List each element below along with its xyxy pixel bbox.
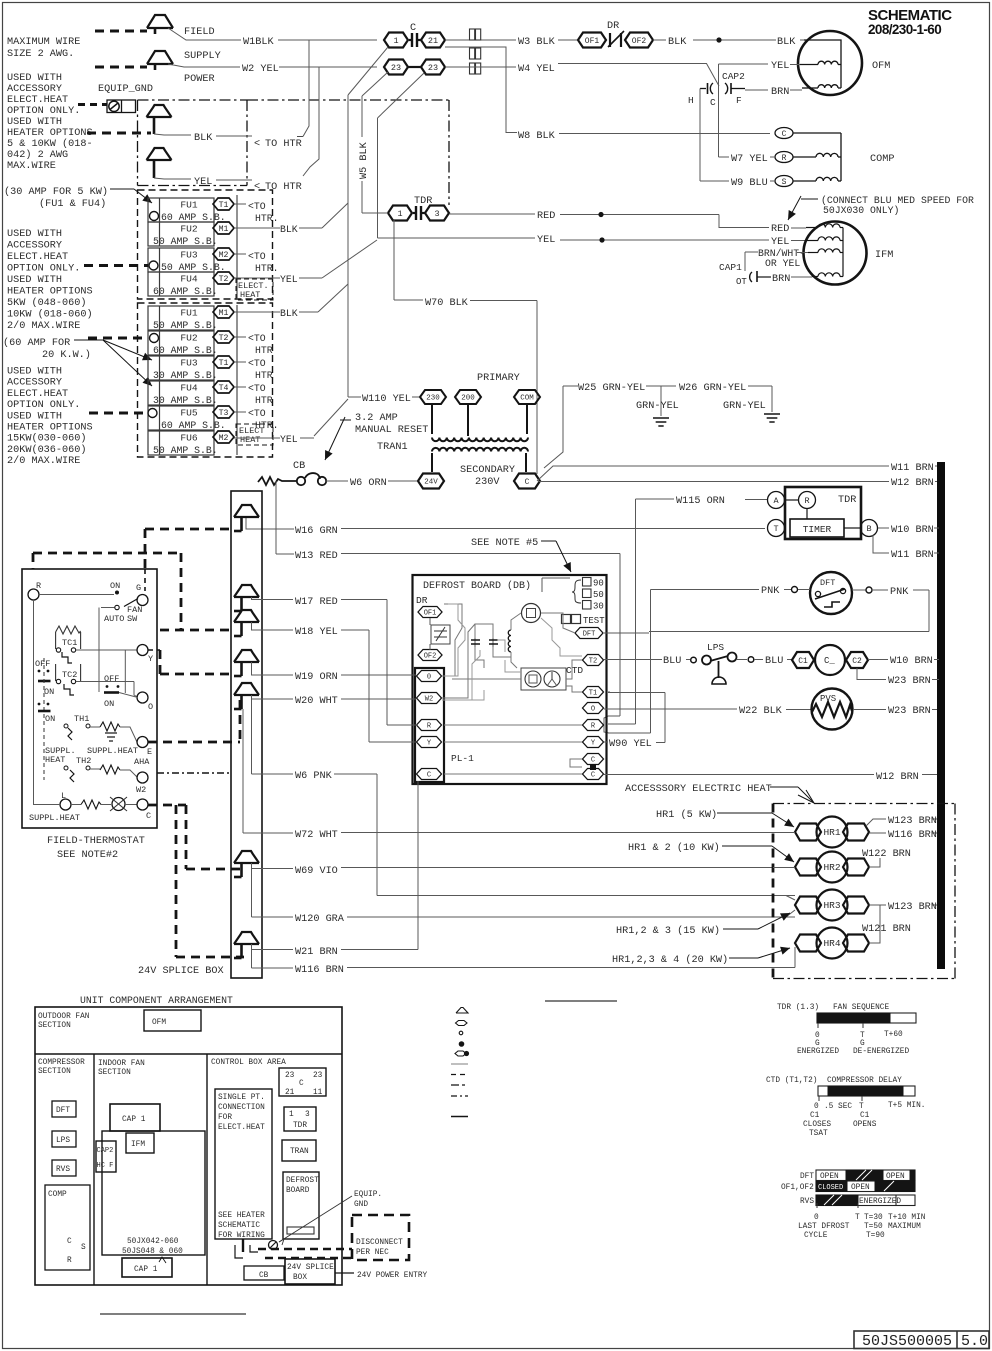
wire W19 ORN to defrost O hex bbox=[252, 662, 417, 675]
wire TC1 to Y bbox=[76, 649, 137, 651]
separator line near charts bbox=[545, 1000, 617, 1002]
label SEE NOTE#2 bbox=[57, 850, 118, 861]
svg-text:T: T bbox=[859, 1103, 864, 1111]
trunk W5 BLK vertical bbox=[362, 72, 388, 213]
fuse FU2 (T2) block2 bbox=[148, 331, 234, 355]
label W8 BLK bbox=[518, 131, 556, 142]
defrost relay capacitor element bbox=[430, 618, 450, 650]
svg-text:C_: C_ bbox=[824, 656, 835, 666]
svg-text:W2: W2 bbox=[136, 785, 146, 795]
label COMPRESSOR SECTION bbox=[38, 1059, 85, 1076]
svg-text:W25 GRN-YEL: W25 GRN-YEL bbox=[578, 383, 645, 394]
wire W6 PNK to heat box bbox=[252, 695, 796, 896]
svg-text:ELECT.HEAT: ELECT.HEAT bbox=[7, 252, 68, 263]
svg-text:PER NEC: PER NEC bbox=[356, 1249, 389, 1257]
svg-text:SINGLE PT.: SINGLE PT. bbox=[218, 1094, 265, 1102]
wire R row bbox=[39, 594, 114, 596]
label TO HTR (yel) bbox=[254, 182, 302, 193]
transformer primary terminals 230 200 COM bbox=[420, 390, 540, 404]
label W10 BRN (lps) bbox=[890, 656, 933, 667]
fuse FU5 (T3) block2 bbox=[148, 406, 234, 430]
wire T1-Y W90 YEL bracket bbox=[604, 692, 665, 743]
terminal OF1 (db) bbox=[418, 607, 442, 618]
indoor fan inner box bbox=[102, 1131, 205, 1255]
legend gray line sample bbox=[451, 1063, 468, 1065]
svg-text:W123 BRN: W123 BRN bbox=[888, 902, 937, 913]
dashed stub 60amp to FU2 circle bbox=[88, 337, 148, 340]
label COMP bbox=[870, 154, 894, 165]
svg-text:W4 YEL: W4 YEL bbox=[518, 64, 555, 75]
wire W69 VIO to HR2 bbox=[252, 863, 796, 869]
option circle FU5 bbox=[148, 409, 157, 418]
svg-text:GND: GND bbox=[354, 1201, 368, 1209]
svg-text:R: R bbox=[36, 581, 41, 591]
svg-text:M2: M2 bbox=[219, 251, 229, 260]
svg-text:W10 BRN: W10 BRN bbox=[890, 656, 933, 667]
svg-text:Y: Y bbox=[148, 654, 153, 664]
svg-text:W72 WHT: W72 WHT bbox=[295, 830, 338, 841]
label 50 AMP S.B. (FU1 block2) bbox=[153, 320, 218, 331]
svg-text:BLK: BLK bbox=[194, 133, 213, 144]
TDR box (arrangement) bbox=[284, 1107, 316, 1131]
svg-text:T3: T3 bbox=[219, 409, 229, 418]
TEST squares bbox=[562, 615, 606, 627]
label PL-1 bbox=[451, 753, 474, 764]
note 30 amp for 5 kw bbox=[4, 186, 108, 210]
fuse FU3 (T1) block2 bbox=[148, 356, 234, 380]
svg-text:HTR.: HTR. bbox=[255, 263, 279, 274]
svg-text:W9 BLU: W9 BLU bbox=[731, 178, 768, 189]
defrost cycle ticks bbox=[798, 1203, 926, 1240]
svg-text:042) 2 AWG: 042) 2 AWG bbox=[7, 149, 68, 161]
wire YEL into OFM bbox=[719, 61, 801, 157]
svg-text:C: C bbox=[146, 811, 151, 821]
svg-text:INDOOR FAN: INDOOR FAN bbox=[98, 1060, 145, 1068]
fuse FU1 (T1) block1 bbox=[148, 198, 234, 222]
svg-text:W70 BLK: W70 BLK bbox=[425, 298, 469, 309]
label HR1 & 2 (10 KW) with arrow bbox=[628, 842, 794, 862]
svg-text:UNIT COMPONENT ARRANGEMENT: UNIT COMPONENT ARRANGEMENT bbox=[80, 995, 233, 1006]
svg-text:W122 BRN: W122 BRN bbox=[862, 849, 911, 860]
svg-text:200: 200 bbox=[461, 395, 475, 403]
svg-text:C: C bbox=[67, 1238, 72, 1246]
label W90 YEL bbox=[609, 739, 652, 750]
svg-text:EQUIP.: EQUIP. bbox=[354, 1191, 382, 1199]
svg-text:OFM: OFM bbox=[152, 1019, 166, 1027]
heater resistor TH1 bbox=[90, 722, 137, 742]
terminal E (tstat) bbox=[137, 737, 152, 758]
svg-text:COMP: COMP bbox=[48, 1191, 67, 1199]
svg-text:CYCLE: CYCLE bbox=[804, 1232, 828, 1240]
svg-text:11: 11 bbox=[313, 1089, 323, 1097]
wire W25/W26 GRN-YEL grounds bbox=[544, 386, 772, 468]
label W12 BRN (lower) bbox=[876, 772, 919, 783]
svg-text:W121 BRN: W121 BRN bbox=[862, 924, 911, 935]
svg-text:PNK: PNK bbox=[890, 587, 909, 598]
defrost thermostat DFT circle bbox=[810, 572, 852, 614]
ground symbol (2) bbox=[764, 414, 780, 422]
label W121 BRN bbox=[862, 924, 911, 935]
svg-text:TO HTR: TO HTR bbox=[265, 139, 302, 150]
wire W3 BLK row bbox=[445, 39, 577, 41]
label DISCONNECT PER NEC bbox=[356, 1239, 403, 1257]
wire W123 BRN (hr3) bbox=[869, 904, 937, 906]
svg-text:W20 WHT: W20 WHT bbox=[295, 696, 338, 707]
transformer TRAN1 coils bbox=[432, 404, 528, 472]
wire W123 BRN (hr1) bbox=[866, 819, 937, 826]
svg-text:TRAN: TRAN bbox=[290, 1148, 309, 1156]
svg-text:C1: C1 bbox=[860, 1112, 870, 1120]
svg-text:60 AMP S.B.: 60 AMP S.B. bbox=[161, 420, 226, 431]
svg-text:SUPPLY: SUPPLY bbox=[184, 51, 221, 62]
contact TDR (1-3) bbox=[388, 206, 449, 221]
svg-text:24V: 24V bbox=[424, 479, 438, 487]
svg-text:SEE HEATER: SEE HEATER bbox=[218, 1212, 265, 1220]
svg-text:T: T bbox=[855, 1214, 860, 1222]
PVS resistor zigzag bbox=[812, 702, 852, 717]
system switch OFF/ON bbox=[104, 650, 136, 709]
terminal T2 (db) bbox=[583, 655, 604, 666]
wire O hex to PVS row bbox=[604, 708, 737, 710]
svg-text:GRN-YEL: GRN-YEL bbox=[723, 401, 766, 412]
arrow see-note-5 to defrost board bbox=[541, 541, 571, 572]
svg-text:<TO: <TO bbox=[248, 333, 266, 344]
defrost relay circle (top) bbox=[522, 604, 541, 623]
svg-text:FOR: FOR bbox=[218, 1114, 232, 1122]
svg-text:W22 BLK: W22 BLK bbox=[739, 706, 783, 717]
TIMER box bbox=[790, 519, 844, 537]
label W1BLK bbox=[243, 37, 274, 48]
label W120 GRA bbox=[295, 914, 345, 925]
junction dot YEL bbox=[599, 237, 604, 242]
terminal Y (db) bbox=[583, 737, 604, 748]
svg-text:TH1: TH1 bbox=[74, 714, 89, 724]
svg-text:EQUIP_GND: EQUIP_GND bbox=[98, 84, 153, 95]
svg-text:W5 BLK: W5 BLK bbox=[359, 141, 370, 179]
svg-text:(30 AMP FOR 5 KW): (30 AMP FOR 5 KW) bbox=[4, 186, 108, 198]
label YEL fuse2 bbox=[280, 434, 298, 445]
svg-text:W8 BLK: W8 BLK bbox=[518, 131, 556, 142]
legend dash sample 1 bbox=[451, 1074, 468, 1076]
wire O row to W22 BLK bbox=[786, 709, 812, 711]
label HR1,2 & 3 (15 KW) with arrow bbox=[616, 913, 790, 937]
wire PVS to W23 BRN bbox=[853, 709, 937, 711]
svg-text:MAXIMUM: MAXIMUM bbox=[888, 1223, 921, 1231]
wire W1 BLK from field plug bbox=[168, 28, 377, 40]
svg-text:USED WITH: USED WITH bbox=[7, 411, 62, 422]
label SECONDARY 230V bbox=[460, 465, 515, 488]
legend dash sample 2 bbox=[451, 1084, 468, 1086]
svg-text:60 AMP S.B.: 60 AMP S.B. bbox=[153, 345, 218, 356]
svg-text:W23 BRN: W23 BRN bbox=[888, 676, 931, 687]
svg-text:SECTION: SECTION bbox=[38, 1022, 71, 1030]
label TDR (contact) bbox=[414, 196, 432, 207]
wire W5 BLK to TDR bbox=[362, 212, 388, 214]
dashed wire R to splice bbox=[33, 553, 181, 569]
defrost inductor coil bbox=[508, 630, 511, 652]
DFT box (arrangement) bbox=[52, 1101, 76, 1117]
svg-text:W18 YEL: W18 YEL bbox=[295, 627, 338, 638]
svg-text:W7 YEL: W7 YEL bbox=[731, 154, 768, 165]
terminal C (tstat) bbox=[137, 799, 151, 821]
label DR (top) bbox=[607, 21, 619, 32]
label DEFROST BOARD (DB) bbox=[423, 580, 531, 592]
splice plug p5 bbox=[234, 683, 259, 709]
wire W13 RED to defrost R bbox=[276, 481, 620, 733]
svg-text:C1: C1 bbox=[798, 657, 808, 666]
svg-text:YEL: YEL bbox=[771, 237, 789, 248]
svg-text:FU1: FU1 bbox=[180, 308, 198, 319]
svg-text:DFT: DFT bbox=[820, 578, 835, 588]
option circle FU2 block2 bbox=[150, 334, 159, 343]
field supply dashed wire 1 bbox=[95, 30, 147, 33]
labels ENERGIZED DE-ENERGIZED bbox=[797, 1048, 909, 1056]
label OUTDOOR FAN SECTION bbox=[38, 1013, 90, 1030]
capacitor CAP2 bbox=[700, 71, 745, 94]
svg-text:AUTO: AUTO bbox=[104, 614, 124, 624]
svg-text:TDR: TDR bbox=[293, 1122, 307, 1130]
defrost capacitors bbox=[471, 638, 498, 647]
label CTD bbox=[566, 665, 583, 676]
svg-text:T1: T1 bbox=[219, 201, 229, 210]
svg-text:HEATER OPTIONS: HEATER OPTIONS bbox=[7, 128, 93, 139]
svg-text:TH2: TH2 bbox=[76, 756, 91, 766]
svg-text:CAP2: CAP2 bbox=[97, 1147, 114, 1155]
terminal pair 23-23 bbox=[384, 60, 445, 75]
label RED (ifm) bbox=[771, 224, 806, 235]
defrost cycle chart RVS row bbox=[800, 1195, 915, 1206]
svg-text:C: C bbox=[591, 757, 595, 765]
wire L row with resistor and lamp bbox=[34, 800, 112, 809]
fuse FU1 (M1) block2 bbox=[148, 306, 234, 330]
svg-text:ACCESSORY: ACCESSORY bbox=[7, 84, 62, 95]
wire HR1 left lead bbox=[773, 832, 795, 834]
svg-text:W11 BRN: W11 BRN bbox=[891, 463, 934, 474]
svg-text:W11 BRN: W11 BRN bbox=[891, 550, 934, 561]
fuse FU2 (M1) block1 bbox=[148, 222, 234, 246]
title block 50JS500005 5.0 bbox=[854, 1331, 989, 1350]
svg-text:FU1: FU1 bbox=[180, 200, 198, 211]
label YEL (left mid) bbox=[537, 235, 555, 246]
svg-text:HEAT: HEAT bbox=[45, 755, 65, 765]
unit arrangement outer box bbox=[35, 1007, 342, 1285]
label 24V SPLICE BOX bbox=[138, 966, 224, 977]
svg-text:SUPPL.HEAT: SUPPL.HEAT bbox=[29, 813, 80, 823]
fuse FU4 (T4) block2 bbox=[148, 381, 234, 405]
junction dot BLK bbox=[716, 37, 721, 42]
svg-text:HTR: HTR bbox=[255, 395, 273, 406]
svg-text:60 AMP S.B.: 60 AMP S.B. bbox=[153, 286, 218, 297]
svg-text:DEFROST: DEFROST bbox=[286, 1177, 319, 1185]
svg-text:RED: RED bbox=[537, 211, 555, 222]
label 60 AMP S.B. (FU2 block2) bbox=[153, 345, 218, 356]
label W123 BRN (hr1) bbox=[888, 816, 937, 827]
svg-text:1: 1 bbox=[289, 1111, 294, 1119]
wire BRN/WHT into IFM bbox=[745, 248, 808, 269]
label LPS bbox=[707, 642, 724, 653]
svg-text:5KW (048-060): 5KW (048-060) bbox=[7, 297, 86, 309]
note 3.2 amp manual reset bbox=[355, 413, 428, 453]
wire BRN into OFM bbox=[745, 87, 802, 98]
svg-text:DFT: DFT bbox=[583, 631, 596, 639]
comp coils and bracket bbox=[793, 133, 841, 181]
labels SUPPL HEAT bbox=[45, 746, 138, 765]
junction dot RED bbox=[598, 212, 603, 217]
terminal O (tstat) bbox=[137, 692, 153, 712]
label 50JX042-060 bbox=[127, 1238, 179, 1246]
indicator lamp (X circle) bbox=[110, 797, 137, 811]
label 50 AMP S.B. (FU6 block2) bbox=[153, 445, 218, 456]
svg-text:T1: T1 bbox=[589, 690, 597, 698]
svg-text:COMPRESSOR DELAY: COMPRESSOR DELAY bbox=[827, 1077, 902, 1085]
svg-text:<TO: <TO bbox=[248, 358, 266, 369]
wire W116 BRN to HR1 lower bbox=[252, 950, 796, 969]
svg-text:208/230-1-60: 208/230-1-60 bbox=[868, 22, 941, 37]
svg-text:T=30: T=30 bbox=[864, 1214, 883, 1222]
label W6 PNK bbox=[295, 771, 333, 782]
svg-text:3: 3 bbox=[434, 209, 439, 219]
wire W12 BRN (db C) bbox=[604, 774, 937, 776]
svg-text:<TO: <TO bbox=[248, 408, 266, 419]
wire W115 ORN bbox=[636, 499, 768, 724]
relay contact DR (OF1-OF2) bbox=[578, 31, 653, 48]
svg-text:23: 23 bbox=[285, 1072, 295, 1080]
svg-text:5 & 10KW (018-: 5 & 10KW (018- bbox=[7, 138, 93, 150]
label PNK (left) bbox=[761, 586, 780, 597]
svg-text:HR1,2 & 3 (15 KW): HR1,2 & 3 (15 KW) bbox=[616, 925, 720, 937]
svg-text:W26 GRN-YEL: W26 GRN-YEL bbox=[679, 383, 746, 394]
svg-text:YEL: YEL bbox=[194, 177, 212, 188]
cooling stage TC2 bbox=[56, 664, 81, 695]
label OFF (left) bbox=[35, 659, 50, 672]
svg-text:50JX030 ONLY): 50JX030 ONLY) bbox=[823, 205, 899, 216]
svg-text:OFM: OFM bbox=[872, 61, 890, 72]
svg-text:MANUAL RESET: MANUAL RESET bbox=[355, 425, 428, 436]
svg-text:CTD (T1,T2): CTD (T1,T2) bbox=[766, 1077, 817, 1085]
svg-text:CONTROL BOX AREA: CONTROL BOX AREA bbox=[211, 1059, 286, 1067]
svg-text:50JX042-060: 50JX042-060 bbox=[127, 1238, 179, 1246]
svg-text:(60 AMP FOR: (60 AMP FOR bbox=[3, 337, 70, 349]
separator line under unit box bbox=[100, 1313, 246, 1315]
legend triangle bbox=[456, 1008, 468, 1014]
svg-text:T1: T1 bbox=[219, 359, 229, 368]
svg-text:LPS: LPS bbox=[707, 642, 724, 653]
cooling stage TC1 bbox=[56, 626, 81, 663]
svg-text:W69 VIO: W69 VIO bbox=[295, 866, 338, 877]
svg-text:SEE NOTE#2: SEE NOTE#2 bbox=[57, 850, 118, 861]
svg-text:IFM: IFM bbox=[131, 1141, 145, 1149]
wire W2 YEL from supply plug bbox=[168, 64, 377, 67]
svg-text:21: 21 bbox=[428, 36, 438, 46]
svg-text:T=90: T=90 bbox=[866, 1232, 885, 1240]
svg-text:HR4: HR4 bbox=[823, 938, 840, 949]
svg-text:<: < bbox=[254, 139, 260, 150]
compressor COMP terminals bbox=[775, 128, 793, 187]
svg-text:W12 BRN: W12 BRN bbox=[891, 478, 934, 489]
dashed wire Y to W19 plug bbox=[148, 650, 231, 674]
wire PNK left bbox=[651, 587, 811, 593]
svg-text:SECTION: SECTION bbox=[98, 1069, 131, 1077]
timer TDR box bbox=[785, 487, 861, 539]
svg-text:0: 0 bbox=[814, 1214, 819, 1222]
svg-text:FAN SEQUENCE: FAN SEQUENCE bbox=[833, 1004, 889, 1012]
svg-text:USED WITH: USED WITH bbox=[7, 229, 62, 240]
svg-text:TC2: TC2 bbox=[62, 670, 77, 680]
svg-text:CAP 1: CAP 1 bbox=[134, 1266, 158, 1274]
terminal L (tstat) bbox=[60, 791, 71, 810]
label FIELD bbox=[184, 27, 215, 38]
dashed wire G to splice (W16) bbox=[145, 529, 231, 591]
svg-text:G: G bbox=[860, 1040, 865, 1048]
terminal W2 (tstat) bbox=[136, 772, 148, 795]
OFM box (arrangement) bbox=[144, 1010, 201, 1031]
callout arrow 60-amp to FU3 bbox=[74, 340, 152, 360]
svg-text:W13 RED: W13 RED bbox=[295, 551, 338, 562]
accessory heat dash-dot box bbox=[773, 804, 955, 979]
legend dash-dot sample bbox=[451, 1095, 468, 1097]
DEFROST BOARD box (arrangement) bbox=[283, 1172, 319, 1239]
svg-text:W1BLK: W1BLK bbox=[243, 37, 274, 48]
svg-text:OR YEL: OR YEL bbox=[765, 258, 800, 269]
svg-text:HR2: HR2 bbox=[823, 862, 840, 873]
label W122 BRN bbox=[862, 849, 911, 860]
label EQUIP_GND bbox=[98, 84, 153, 95]
svg-text:CLOSES: CLOSES bbox=[803, 1121, 831, 1129]
splice plug p4 bbox=[234, 650, 259, 676]
svg-text:FU5: FU5 bbox=[180, 408, 198, 419]
wires hexes to TO HTR block2 bbox=[234, 337, 246, 412]
svg-text:FU3: FU3 bbox=[180, 250, 198, 261]
terminal R (tstat) bbox=[28, 581, 41, 600]
label 60 AMP S.B. (FU1 block1) bbox=[161, 212, 226, 223]
terminal block 23 C 23 / 21 11 bbox=[279, 1068, 326, 1097]
svg-text:ON: ON bbox=[104, 699, 114, 709]
svg-text:DR: DR bbox=[416, 595, 428, 606]
callout arrow 60-amp to FU4 bbox=[103, 340, 152, 386]
svg-text:T+10 MIN: T+10 MIN bbox=[888, 1214, 926, 1222]
svg-text:OFF: OFF bbox=[35, 659, 50, 669]
svg-text:50 AMP S.B.: 50 AMP S.B. bbox=[153, 320, 218, 331]
legend filled circle bbox=[459, 1041, 465, 1047]
svg-text:MAX.WIRE: MAX.WIRE bbox=[7, 161, 56, 172]
dash-dot wire W2 to W6 PNK bbox=[157, 772, 231, 774]
svg-text:S: S bbox=[81, 1244, 86, 1252]
terminal contact C (1-21) bbox=[384, 33, 445, 48]
svg-text:FU4: FU4 bbox=[180, 383, 198, 394]
label YEL fuse1 bbox=[280, 274, 298, 285]
svg-text:SEE NOTE #5: SEE NOTE #5 bbox=[471, 538, 538, 549]
svg-text:HR1 & 2 (10 KW): HR1 & 2 (10 KW) bbox=[628, 842, 720, 854]
label 50 AMP S.B. (FU2 block1) bbox=[153, 236, 218, 247]
thermostat internal left vertical bbox=[33, 600, 35, 805]
svg-text:OF1,OF2: OF1,OF2 bbox=[781, 1184, 814, 1192]
chart header TDR FAN SEQUENCE bbox=[777, 1004, 889, 1012]
label UNIT COMPONENT ARRANGEMENT bbox=[80, 995, 233, 1006]
label W3 BLK bbox=[518, 37, 556, 48]
wire W11 BRN (tdr B lower) bbox=[873, 535, 939, 553]
svg-text:PNK: PNK bbox=[761, 586, 780, 597]
fuse FU4 (T2) block1 bbox=[148, 272, 234, 296]
svg-text:PL-1: PL-1 bbox=[451, 753, 474, 764]
label BLK fuse1 bbox=[280, 224, 298, 235]
label EQUIP GND (arrangement) bbox=[354, 1191, 382, 1209]
svg-text:DEFROST BOARD (DB): DEFROST BOARD (DB) bbox=[423, 580, 531, 592]
equipment ground terminal block bbox=[107, 100, 136, 113]
wire BLK after DR bbox=[653, 39, 804, 41]
svg-text:20 K.W.): 20 K.W.) bbox=[42, 349, 91, 361]
svg-text:IFM: IFM bbox=[875, 250, 893, 261]
svg-text:COMPRESSOR: COMPRESSOR bbox=[38, 1059, 85, 1067]
